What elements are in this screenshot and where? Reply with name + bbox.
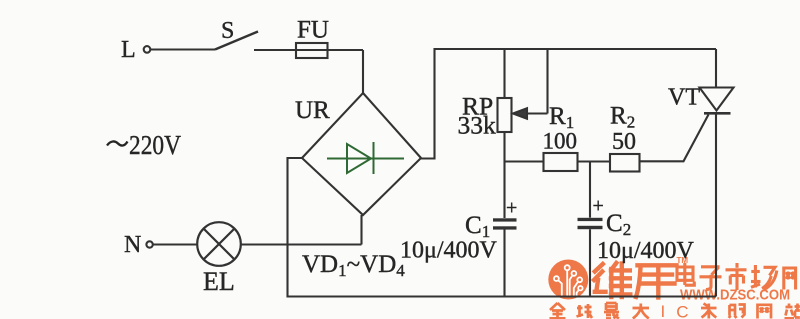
svg-text:50: 50 <box>612 129 636 155</box>
svg-text:33k: 33k <box>458 111 497 140</box>
svg-text:EL: EL <box>203 267 235 296</box>
svg-text:VD1~VD4: VD1~VD4 <box>302 251 405 280</box>
svg-text:C2: C2 <box>606 210 631 239</box>
svg-text:WWW.DZSC.COM: WWW.DZSC.COM <box>680 287 790 304</box>
svg-text:C: C <box>676 302 688 319</box>
svg-text:L: L <box>121 37 136 63</box>
svg-text:S: S <box>221 18 234 44</box>
svg-text:220V: 220V <box>129 130 181 160</box>
svg-text:VT: VT <box>668 85 700 111</box>
svg-text:R2: R2 <box>610 103 635 132</box>
svg-text:10μ/400V: 10μ/400V <box>597 238 695 264</box>
svg-text:UR: UR <box>295 97 330 124</box>
svg-text:I: I <box>661 302 666 319</box>
svg-text:+: + <box>506 197 517 219</box>
svg-text:N: N <box>124 232 141 258</box>
svg-text:100: 100 <box>543 129 578 154</box>
svg-text:+: + <box>593 195 604 217</box>
svg-text:FU: FU <box>297 17 329 44</box>
svg-text:10μ/400V: 10μ/400V <box>400 238 498 264</box>
